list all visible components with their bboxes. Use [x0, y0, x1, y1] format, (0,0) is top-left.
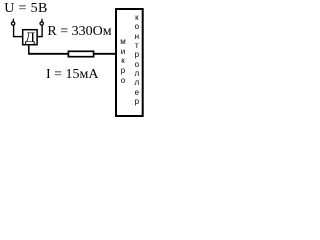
microcontroller vertical text column "kontroller" [132, 13, 142, 106]
wire left lead vertical [13, 25, 15, 36]
diode indicator box D [23, 30, 37, 45]
label R = 330 Ohm [47, 25, 111, 39]
letter D inside diode box [25, 31, 35, 46]
microcontroller vertical text column "mikro" [118, 37, 128, 85]
wire right lead vertical [41, 25, 43, 36]
terminal pin left (circle with stub) [0, 0, 150, 123]
wire right lead horizontal [37, 36, 43, 38]
terminal pin right circle [40, 22, 43, 25]
resistor R body [68, 51, 93, 56]
wire resistor to microcontroller [94, 53, 116, 55]
wire from box bottom down [28, 45, 30, 54]
label U = 5V [4, 2, 47, 16]
label I = 15 mA [46, 68, 99, 82]
terminal pin left stub [12, 19, 14, 22]
terminal pin left circle [11, 22, 14, 25]
microcontroller box U1 [116, 9, 143, 116]
terminal pin right stub [41, 19, 43, 22]
wire left lead horizontal [13, 36, 23, 38]
wire horizontal to resistor [28, 53, 68, 55]
